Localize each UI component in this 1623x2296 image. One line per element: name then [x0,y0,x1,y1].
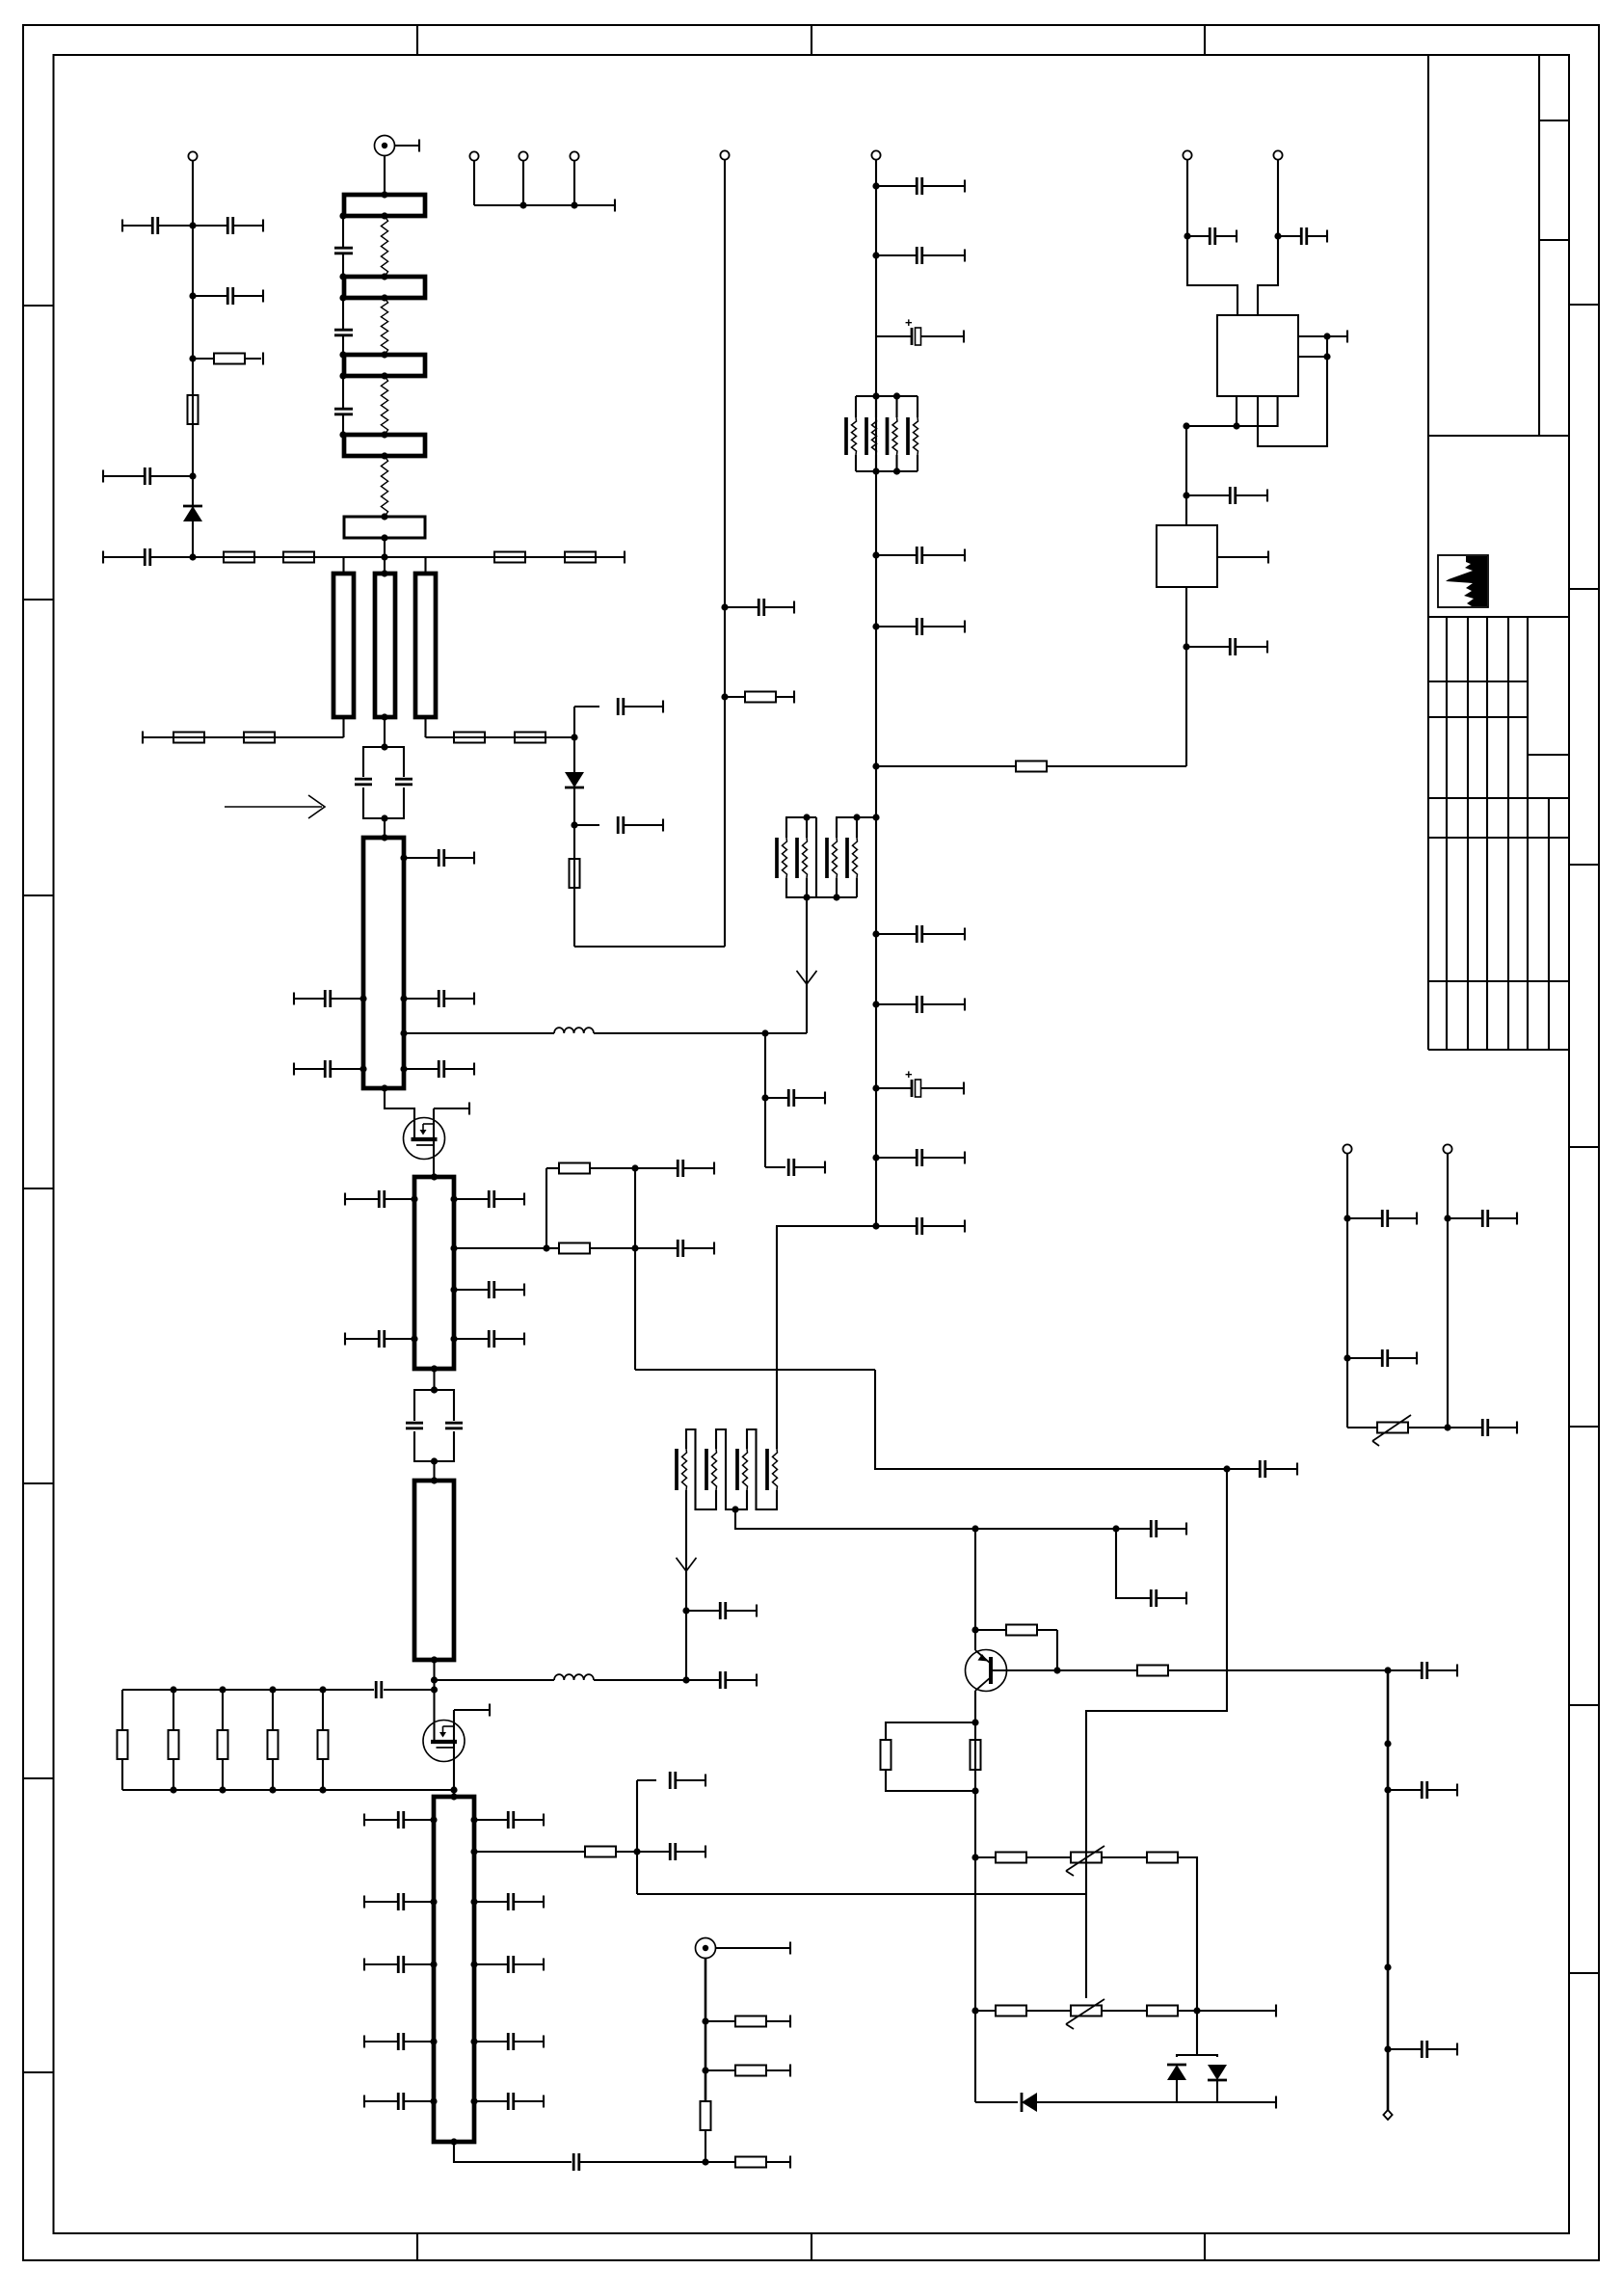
wire [1037,2101,1276,2103]
capacitor C63 [1347,1349,1417,1367]
capacitor C56 [686,1602,757,1619]
wire [473,161,475,205]
junction [872,1001,879,1007]
resistor R7 [173,733,204,743]
wire U1 bottom pin A [1236,396,1237,426]
capacitor C45 [876,247,965,264]
resistor R6 [565,552,596,563]
inductor L7 [554,1028,594,1033]
junction [1053,1667,1060,1673]
capacitor C19 [345,1330,414,1348]
junction [430,1816,437,1823]
capacitor C29 [364,1956,434,1973]
junction [971,1525,978,1532]
signal arrow [797,971,817,984]
capacitor C44 [876,177,965,195]
capacitor C3 [193,287,263,305]
diode D1 [183,506,202,521]
junction [381,1084,387,1091]
wire [1047,765,1186,767]
junction [431,1656,438,1663]
capacitor C53 [876,1217,965,1235]
junction [721,603,728,610]
junction [571,734,577,740]
resistor R28 [971,1740,981,1770]
junction [1384,1667,1391,1673]
junction [702,2067,708,2073]
junction [1323,353,1330,360]
junction [411,1335,417,1342]
junction [721,693,728,700]
junction [872,392,879,399]
node n4 [189,472,196,479]
coupling spring L2 [381,298,387,355]
capacitor C30 [474,1956,544,1973]
resistor R12 [169,1690,179,1790]
resistor R32 [1147,2006,1178,2016]
junction [971,2007,978,2014]
junction [971,1854,978,1860]
wire U1 bottom pin C [1186,396,1278,426]
capacitor C18 [454,1281,524,1298]
junction [339,351,346,358]
capacitor C46 (electrolytic) [876,315,964,345]
junction [381,534,387,541]
junction [431,1386,438,1393]
junction [1323,333,1330,339]
resistor R23 [570,859,580,888]
junction [269,1786,276,1793]
coax connector J2 [696,1938,716,1959]
T1 winding W3 [827,838,838,878]
T2 winding W1 [677,1449,687,1490]
wire [395,145,420,147]
junction [431,1477,438,1483]
capacitor C17 [454,1190,524,1208]
capacitor C62 [1347,1210,1417,1227]
junction [470,1898,477,1905]
junction [971,1719,978,1725]
resistor R29 [975,1853,1071,1863]
junction [400,1029,407,1036]
junction [1344,1215,1350,1221]
wire [433,1369,435,1390]
wire end [624,551,625,564]
junction [381,372,387,379]
wire [192,160,194,557]
wire [1185,426,1187,525]
junction [1444,1215,1450,1221]
wire main rail [875,160,877,1226]
junction [431,1457,438,1464]
wire [342,717,344,737]
junction [381,212,387,219]
logo box [1438,555,1488,607]
parallel capacitor pair C21 C22 [406,1390,463,1461]
terminal P1 (tune input) [188,151,197,160]
coax connector J1 [375,136,395,156]
wire [594,1032,807,1034]
wire T1 tap down [806,897,808,1033]
junction [732,1506,738,1512]
junction [470,1816,477,1823]
wire [1408,1427,1448,1428]
wire T2 feed from net [776,1226,778,1449]
wire [1197,2010,1276,2012]
junction [430,1961,437,1967]
junction [269,1686,276,1693]
wire [384,538,386,574]
junction [339,431,346,438]
junction [411,1195,417,1202]
junction [381,452,387,459]
wire to MOSFET gate [385,1088,414,1139]
resistor R24 [1016,761,1047,772]
wire [433,1660,435,1690]
junction [450,2138,457,2145]
stub resonator Z8 [415,574,436,717]
left margin zone ticks [23,306,54,2072]
junction [1384,1786,1391,1793]
varistor RV3 [1372,1415,1411,1446]
junction [170,1786,176,1793]
resonator Z5 [344,517,425,538]
junction [470,2097,477,2104]
terminal P6 (supply) [871,150,880,159]
wire U2 bottom [1185,587,1187,766]
junction [430,2097,437,2104]
junction [872,1222,879,1229]
wire [1187,160,1237,315]
capacitor C65 [1448,1419,1517,1436]
junction [431,1686,438,1693]
wire net A horizontal [635,1369,875,1371]
junction [381,191,387,198]
wire Q2 drain-source through [454,1704,490,1798]
wire IF line [404,1032,554,1034]
capacitor C39 [637,1772,705,1789]
T2 winding W2 [706,1449,717,1490]
junction [1183,422,1189,429]
resistor R3 [224,552,254,563]
junction [761,1094,768,1101]
node n6 [381,553,387,560]
resistor R14 [268,1690,279,1790]
capacitor C61 [1388,2041,1457,2058]
junction [631,1244,638,1251]
junction [1183,492,1189,498]
capacitor C20 [454,1330,524,1348]
wire [384,717,386,747]
choke block L6 (4 parallel windings) [856,396,918,471]
junction [359,1065,366,1072]
stub resonator Z6 [333,574,354,717]
capacitor C58 [1116,1589,1186,1607]
junction [631,1164,638,1171]
wire output coupling [454,2142,572,2162]
resonator Z3 [344,355,425,376]
junction [381,834,387,841]
capacitor C35 [573,2153,705,2171]
wire [1102,2010,1147,2012]
diode D2 [1022,2093,1037,2112]
capacitor C50 [876,996,965,1013]
junction [319,1686,326,1693]
junction [519,201,526,208]
capacitor C54 [765,1089,825,1107]
capacitor C24 (series in bus) [376,1681,382,1698]
junction [339,372,346,379]
junction [400,854,407,861]
wire base line right [1168,1669,1388,1671]
capacitor C16 [345,1190,414,1208]
capacitor C67 [1278,227,1327,245]
wire [1447,1154,1449,1428]
junction [470,1961,477,1967]
junction [571,821,577,828]
junction [893,392,900,399]
resonator Z1 [344,195,425,216]
capacitor C28 [474,1893,544,1910]
diode D4 [1208,2065,1227,2080]
stub resonator Z7 [375,574,395,717]
T1 winding W4 [847,838,858,878]
wire diode pair top [1177,2011,1197,2057]
junction [853,814,860,820]
junction [430,2038,437,2044]
resonator line Z11 [414,1481,454,1660]
wire [705,1959,707,2101]
capacitor C5 [103,548,193,566]
capacitor C38 [1227,1460,1297,1478]
junction [633,1848,640,1855]
junction [381,743,387,750]
wire [1258,160,1278,315]
terminal P11 [1273,150,1282,159]
wire [424,717,426,737]
wire [345,556,422,558]
node [1384,1740,1391,1747]
capacitor C37 [635,1240,714,1257]
capacitor C41 [725,599,794,616]
annotation arrow (tuning) [225,795,325,818]
wire [522,161,524,205]
wire limiter rail [975,2101,1018,2103]
wire [1102,1856,1147,1858]
resistor R8 [244,733,275,743]
wire net A vertical [634,1168,636,1370]
terminal P7 [1383,2110,1392,2120]
wire left coupling [342,216,344,435]
wire [1176,2080,1178,2102]
capacitor C2 [193,217,263,234]
junction [682,1607,689,1614]
capacitor C14 [294,1060,363,1078]
logo spectrum graphic [1446,556,1487,606]
coupling spring L4 [381,456,387,517]
T1 winding W2 [797,838,808,878]
capacitor C11 [404,849,474,867]
resistor R18 [701,2101,711,2130]
junction [400,995,407,1001]
resistor R10 [515,733,545,743]
junction [571,201,577,208]
transformer T1 left pair [785,817,816,897]
capacitor C7 [334,330,353,335]
inductor L5 [554,1674,594,1680]
junction [971,1787,978,1794]
resonator Z4 [344,435,425,456]
resistor R26 [1137,1666,1168,1676]
trimmer RV1 [1066,1846,1104,1876]
junction [381,431,387,438]
resistor R15 [318,1690,329,1790]
junction [872,182,879,189]
junction [1274,232,1281,239]
junction [872,551,879,558]
terminal P2 [469,151,478,160]
capacitor C31 [364,2033,434,2050]
junction [339,294,346,301]
junction [1344,1354,1350,1361]
junction [381,814,387,821]
junction [872,1154,879,1161]
resistor R17 [705,2065,790,2077]
wire row A [546,1167,559,1169]
node n3 [189,355,196,361]
wire net A to C-row [637,1893,1086,1895]
wire stub3 to top line [424,557,426,574]
junction [872,623,879,629]
wire stub1 to top line [342,557,344,574]
T2 winding W4 [767,1449,778,1490]
junction [450,1335,457,1342]
MOSFET Q1 [404,1118,445,1160]
resistor R20 [559,1163,635,1174]
wire [594,1679,686,1681]
capacitor C23 [686,1671,757,1689]
transformer T1 bridge wire [815,817,817,897]
right margin zone ticks [1569,305,1599,1973]
junction [761,1029,768,1036]
wire [574,946,725,948]
resistor R31 [975,2006,1071,2016]
resistor R2 [188,395,199,424]
junction [431,1365,438,1372]
terminal P5 [720,150,729,159]
capacitor C43 [574,816,663,834]
capacitor C12 [294,990,363,1007]
terminal P8 [1343,1144,1351,1153]
terminal P9 [1443,1144,1451,1153]
capacitor C15 [404,1060,474,1078]
junction [1233,422,1239,429]
junction [702,2158,708,2165]
junction [833,894,839,900]
junction [470,2038,477,2044]
resistor R21 [546,1243,635,1254]
junction [170,1686,176,1693]
capacitor C64 [1448,1210,1517,1227]
wire bracket [545,1168,547,1248]
wire to matching inductor [435,1679,555,1681]
wire [474,1851,585,1853]
capacitor C55 [765,1159,825,1176]
wire [1347,1427,1377,1428]
resistor R9 [454,733,485,743]
junction [430,1898,437,1905]
junction [400,1065,407,1072]
capacitor C66 [1187,227,1237,245]
wire W1 bottom down [685,1490,687,1680]
wire right termination y765 [426,736,575,738]
capacitor C36 [635,1160,714,1177]
node n1 [189,222,196,228]
wire [384,818,386,838]
capacitor C32 [474,2033,544,2050]
node n2 [189,292,196,299]
junction [872,252,879,258]
wire terminal bus [474,204,615,206]
terminal P10 [1183,150,1191,159]
resistor R19 [705,2156,790,2169]
junction [381,351,387,358]
junction [450,1793,457,1800]
resistor R30 [1147,1853,1178,1863]
junction [872,814,879,820]
wire x596 vertical [573,707,575,947]
junction [219,1786,226,1793]
junction [319,1786,326,1793]
junction [381,513,387,520]
capacitor C34 [474,2093,544,2110]
capacitor C25 [364,1811,434,1829]
wire net A down-right [875,1370,1227,1469]
transformer T1 right pair [816,817,876,897]
coupling spring L1 [381,216,387,277]
wire PLL loop line [876,765,1016,767]
wire U2 pin right [1217,556,1268,558]
resonator line Z10 [414,1177,454,1369]
MOSFET Q2 [423,1721,465,1762]
resonator line Z12 [434,1797,474,2142]
junction [543,1244,549,1251]
wire base line [991,1669,1137,1671]
resistor R5 [494,552,525,563]
wire U1 pin right 1 [1298,335,1347,337]
capacitor C52 [876,1149,965,1166]
junction [450,1195,457,1202]
capacitor C47 [876,547,965,564]
junction [470,1848,477,1855]
wire feedback tap [454,1247,546,1249]
capacitor C68 [1186,487,1267,504]
capacitor C60 [1388,1781,1457,1799]
junction [359,995,366,1001]
junction [872,762,879,769]
junction [702,2017,708,2024]
resistor R27 (parallel pair left) [881,1722,976,1791]
junction [381,294,387,301]
bottom margin zone ticks [417,2233,1205,2260]
wire [1216,2080,1218,2102]
junction [339,212,346,219]
junction [450,1786,457,1793]
signal arrow [677,1558,697,1571]
coupling spring L3 [381,376,387,435]
svg-text:+: + [905,315,913,330]
capacitor C13 [404,990,474,1007]
